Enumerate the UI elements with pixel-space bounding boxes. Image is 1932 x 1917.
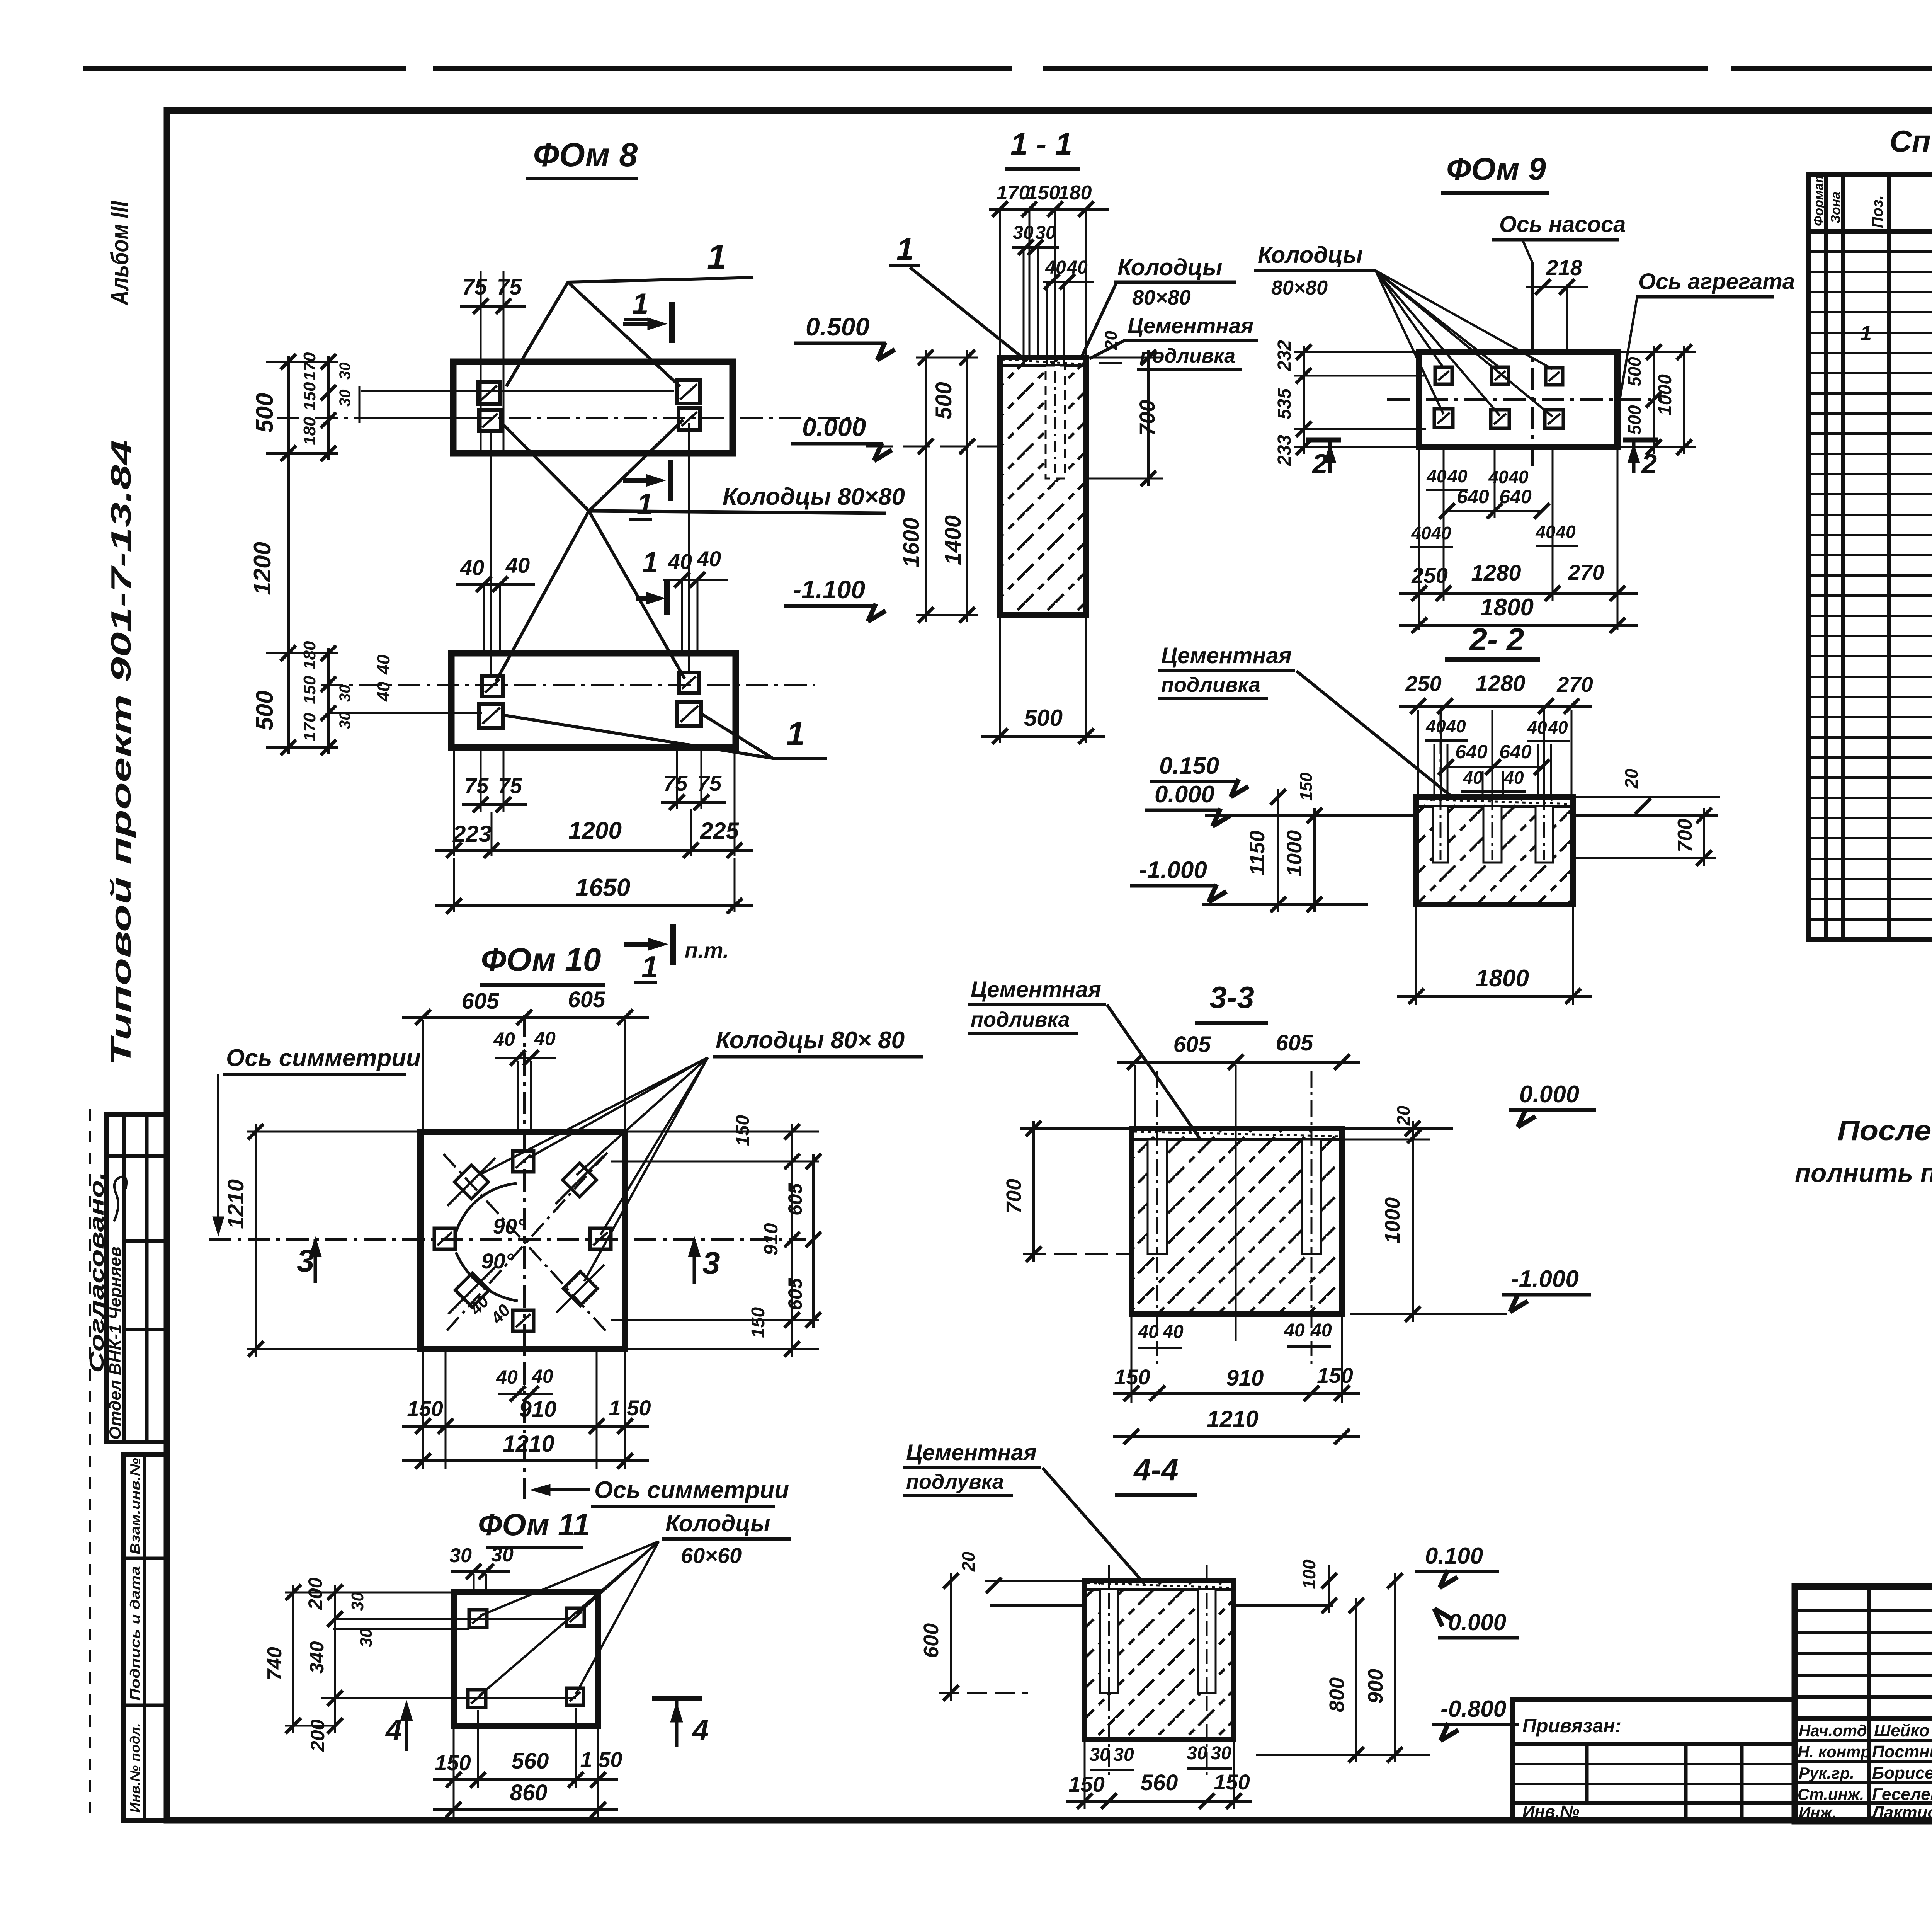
svg-text:1210: 1210 [223,1179,248,1229]
svg-text:40: 40 [496,1366,518,1388]
FOm 8 section mark 1 mid [668,460,673,501]
svg-text:1: 1 [632,288,648,320]
FOm 8 upper slab wells [478,382,500,404]
svg-text:200: 200 [307,1719,328,1752]
svg-text:подливка: подливка [1140,345,1235,367]
svg-text:Цементная: Цементная [1161,643,1292,668]
svg-text:150: 150 [1317,1363,1353,1388]
1-1 vertical dims 500 1400 1600 [925,350,927,622]
left stamp Soglasovano box [106,1115,168,1442]
svg-text:500: 500 [1624,405,1645,435]
svg-text:500: 500 [252,393,278,433]
svg-text:30: 30 [337,390,354,407]
svg-text:4: 4 [385,1714,402,1747]
svg-text:250: 250 [1405,671,1441,696]
svg-text:700: 700 [1674,819,1696,852]
FOm 9 right chains 500 500 1000 [1653,346,1655,454]
svg-text:1600: 1600 [899,518,924,567]
svg-text:900: 900 [1364,1669,1387,1704]
svg-text:20: 20 [1621,768,1641,789]
svg-text:1 - 1: 1 - 1 [1010,127,1072,161]
svg-text:150: 150 [300,676,319,704]
FOm 10 right ext lines [628,1131,819,1133]
svg-text:ФОм 9: ФОм 9 [1446,152,1546,187]
svg-text:1: 1 [641,950,658,984]
FOm 8 upper row leader line [367,390,674,392]
FOm 9 slab [1419,352,1617,447]
title block horizontals [1795,1609,1932,1612]
svg-text:Постников: Постников [1872,1742,1932,1761]
svg-text:150: 150 [1027,182,1060,204]
svg-text:Согласовано.: Согласовано. [86,1172,108,1373]
FOm 11 bottom dims 150 560 150 [477,1710,479,1788]
svg-text:150: 150 [407,1396,443,1421]
FOm 10 left dim 1210 [255,1124,257,1357]
svg-text:4-4: 4-4 [1133,1452,1179,1487]
svg-text:500: 500 [931,382,956,419]
svg-text:30: 30 [337,363,354,380]
spec table header row [1809,229,1932,234]
svg-text:40: 40 [505,553,530,577]
svg-text:4: 4 [692,1714,709,1747]
svg-text:40: 40 [460,555,484,580]
svg-text:640: 640 [1455,741,1488,763]
svg-text:2: 2 [1311,449,1328,480]
title block outer [1795,1587,1932,1821]
FOm 9 ext lines down [1418,449,1420,630]
svg-text:0.100: 0.100 [1425,1543,1483,1569]
FOm 8 inner left chain 170 150 180 (upper) [327,356,330,460]
svg-text:40: 40 [1463,768,1483,788]
FOm 9 kolodtsy leaders [1376,271,1444,368]
svg-text:Спецификация к ФОм 8÷ ФОм 11: Спецификация к ФОм 8÷ ФОм 11 [1889,124,1932,158]
FOm 11 dim 860 [453,1728,455,1817]
svg-text:1000: 1000 [1381,1197,1404,1244]
3-3 below: anchor axes [1156,1257,1158,1364]
svg-text:90°: 90° [493,1214,526,1238]
svg-text:700: 700 [1002,1179,1026,1214]
svg-text:-1.000: -1.000 [1511,1266,1579,1292]
svg-text:270: 270 [1568,560,1604,584]
FOm 11 left chains [334,1585,336,1733]
svg-text:200: 200 [304,1577,326,1610]
svg-text:подливка: подливка [971,1008,1070,1031]
svg-text:170: 170 [300,713,319,741]
svg-text:30: 30 [491,1544,514,1566]
FOm 8 lower slab wells [482,676,503,696]
FOm 9 axes [1387,398,1662,401]
svg-text:40: 40 [1045,257,1066,278]
svg-text:Формат: Формат [1811,171,1826,226]
svg-text:Подпись и дата: Подпись и дата [127,1566,143,1701]
4-4 dims 800 900 [1355,1598,1357,1762]
svg-text:150: 150 [748,1307,769,1338]
svg-text:1: 1 [786,715,805,752]
svg-text:Ось насоса: Ось насоса [1499,212,1626,237]
svg-text:40: 40 [1488,467,1509,487]
2-2 ground lines [1205,814,1416,817]
svg-text:1: 1 [637,488,653,521]
svg-text:Ось симметрии: Ось симметрии [226,1045,421,1071]
svg-text:1650: 1650 [575,873,630,901]
FOm 10 dim 1210 bottom [402,1459,649,1462]
svg-text:20: 20 [1102,331,1121,350]
svg-text:30: 30 [449,1544,472,1567]
svg-text:640: 640 [1499,741,1532,763]
svg-text:560: 560 [512,1748,549,1774]
2-2 podlivka layer [1416,805,1573,808]
svg-text:30: 30 [1187,1743,1207,1764]
svg-text:535: 535 [1274,388,1295,419]
FOm 11 slab [454,1592,598,1726]
3-3 well slots [1148,1139,1167,1254]
svg-text:3-3: 3-3 [1209,980,1254,1015]
1-1 dim 700 slot depth [1086,357,1163,359]
svg-text:После установки и выверки: После установки и выверки оборудования в… [1837,1115,1932,1146]
FOm 8 well leader fan X [501,422,589,511]
FOm 8 bolt axis lines [490,433,492,674]
svg-text:Инж.: Инж. [1799,1803,1837,1822]
page top rule [83,66,406,71]
FOm 8 pos leader 1 top [506,278,753,386]
4-4 dim 600 [950,1573,952,1701]
svg-text:605: 605 [1276,1030,1314,1056]
svg-text:150: 150 [1114,1365,1150,1389]
svg-text:полнить подливку цементно-пе: полнить подливку цементно-песчаным раств… [1795,1158,1932,1188]
svg-text:80×80: 80×80 [1132,286,1191,309]
1-1 foundation body [1000,358,1086,615]
svg-text:20: 20 [1393,1105,1413,1126]
svg-text:605: 605 [784,1277,806,1310]
svg-text:Типовой проект 901-7-13.84: Типовой проект 901-7-13.84 [106,440,137,1066]
svg-text:500: 500 [252,691,278,730]
svg-text:170: 170 [997,182,1030,204]
svg-text:800: 800 [1325,1677,1349,1712]
svg-text:40: 40 [1447,466,1468,486]
FOm 10 diagonal axes [444,1154,607,1333]
svg-text:40: 40 [493,1028,515,1050]
svg-text:Колодцы: Колодцы [1258,242,1363,268]
svg-text:605: 605 [1173,1032,1211,1057]
svg-text:1000: 1000 [1283,830,1306,877]
svg-text:Альбом III: Альбом III [106,201,134,306]
svg-text:Ст.инж.: Ст.инж. [1798,1785,1864,1803]
svg-text:п.т.: п.т. [685,938,729,962]
svg-text:40: 40 [1138,1322,1159,1342]
svg-text:180: 180 [300,417,319,445]
FOm 10 right chains [791,1124,793,1357]
svg-text:Поз.: Поз. [1869,195,1886,228]
4-4 ground lines [990,1604,1085,1607]
svg-text:270: 270 [1556,672,1593,696]
FOm 9 dim 250 1280 270 [1399,592,1638,595]
svg-text:-0.800: -0.800 [1440,1696,1506,1722]
spec table row lines [1809,250,1932,253]
3-3 dim 150 910 150 [1131,1317,1133,1403]
FOm 11 wells [469,1610,487,1628]
svg-text:218: 218 [1546,255,1582,280]
svg-text:640: 640 [1457,486,1489,507]
svg-text:1800: 1800 [1476,965,1529,992]
FOm 10 wells straight [513,1151,534,1172]
svg-text:100: 100 [1299,1559,1319,1589]
spec table columns [1824,174,1828,940]
2-2 anchor ext lines [1417,710,1419,797]
left lower stamp box [124,1455,168,1820]
svg-text:1: 1 [896,232,914,266]
svg-text:90°: 90° [481,1249,514,1273]
svg-text:30: 30 [1211,1743,1231,1764]
spec table outer [1809,174,1932,940]
svg-text:500: 500 [1024,705,1063,731]
FOm 9 left chain 232 535 233 [1303,346,1305,454]
FOm 9 wells [1435,367,1452,384]
FOm 9 section mark 2 left [1306,438,1341,443]
svg-text:1: 1 [707,238,726,276]
svg-text:0.000: 0.000 [1519,1081,1579,1108]
svg-text:0.500: 0.500 [806,312,869,341]
FOm 8 left dim chain [287,356,290,754]
svg-text:1280: 1280 [1471,560,1521,586]
svg-text:Инв.№ подл.: Инв.№ подл. [127,1723,143,1813]
svg-text:75: 75 [497,274,522,300]
svg-text:2: 2 [1641,449,1657,480]
svg-text:605: 605 [784,1183,806,1216]
svg-text:860: 860 [510,1780,548,1805]
svg-text:40: 40 [1311,1320,1332,1341]
svg-text:ФОм 10: ФОм 10 [481,941,601,978]
svg-text:150: 150 [1068,1772,1104,1796]
FOm 8 pos leader 1 bottom [502,715,827,758]
svg-text:180: 180 [300,641,319,669]
svg-text:Колодцы 80× 80: Колодцы 80× 80 [716,1027,905,1054]
svg-text:Цементная: Цементная [971,977,1101,1002]
svg-text:Взам.инв.№: Взам.инв.№ [127,1458,143,1554]
svg-text:40: 40 [668,549,692,574]
svg-text:Ось агрегата: Ось агрегата [1638,269,1795,294]
3-3 ground lines [1020,1127,1131,1130]
4-4 well slots [1100,1589,1118,1693]
svg-text:910: 910 [519,1397,557,1422]
2-2 well slots [1433,806,1448,863]
1-1 well slot dashed [1046,366,1065,478]
svg-text:40: 40 [1548,717,1568,737]
svg-text:910: 910 [1226,1365,1264,1391]
svg-text:Лактионов: Лактионов [1871,1803,1932,1822]
svg-text:40: 40 [531,1365,553,1387]
svg-text:Нач.отд: Нач.отд [1799,1721,1867,1740]
svg-text:Колодцы 80×80: Колодцы 80×80 [723,484,905,510]
svg-text:1280: 1280 [1475,671,1525,696]
svg-text:Борисенко: Борисенко [1872,1764,1932,1783]
svg-text:232: 232 [1274,340,1295,371]
svg-text:1: 1 [642,546,658,578]
FOm 8 lower left chain 180 150 170 [327,648,330,754]
svg-text:Цементная: Цементная [1128,313,1253,338]
svg-text:20: 20 [958,1551,978,1572]
4-4 dim 100 [1328,1565,1330,1613]
FOm 11 kolodtsy leaders [481,1541,659,1616]
svg-text:Ось симметрии: Ось симметрии [594,1477,789,1503]
svg-text:150: 150 [1214,1770,1250,1794]
svg-text:1000: 1000 [1655,374,1675,415]
FOm 8 section mark 1 lower [664,581,670,615]
dashed paper fold line [89,1109,91,1817]
FOm 8 upper slab [453,362,733,453]
svg-text:75: 75 [663,771,688,795]
svg-text:30: 30 [1035,223,1056,243]
FOm 9 section mark 2 right [1623,438,1658,443]
svg-text:233: 233 [1274,435,1295,466]
svg-text:Геселева: Геселева [1872,1785,1932,1804]
svg-text:40: 40 [373,654,393,675]
svg-text:1: 1 [1860,322,1872,345]
svg-text:340: 340 [306,1641,328,1674]
svg-text:30: 30 [357,1628,376,1647]
svg-text:1150: 1150 [1246,831,1269,875]
svg-text:40: 40 [1284,1320,1305,1341]
svg-text:500: 500 [1624,357,1645,386]
svg-text:225: 225 [700,818,740,844]
svg-text:0.000: 0.000 [802,413,866,441]
svg-text:75: 75 [464,773,489,798]
1-1 podlivka layer [1000,364,1086,367]
svg-text:600: 600 [920,1623,943,1658]
svg-text:80×80: 80×80 [1271,277,1328,299]
svg-text:30: 30 [1089,1745,1110,1765]
FOm 10 kolodtsy leaders [529,1057,708,1158]
2-2 right dim 700 [1573,857,1716,859]
4-4 anchor axes below [1108,1696,1110,1778]
svg-text:Н. контр: Н. контр [1798,1743,1871,1761]
2-2 dim 1800 below [1415,907,1417,1005]
svg-text:40: 40 [373,681,393,702]
svg-text:60×60: 60×60 [681,1543,742,1568]
svg-text:ФОм 11: ФОм 11 [478,1507,590,1542]
svg-text:Привязан:: Привязан: [1522,1715,1621,1737]
svg-text:250: 250 [1411,563,1447,587]
svg-text:40: 40 [534,1028,556,1049]
svg-text:ФОм 8: ФОм 8 [533,136,638,174]
FOm 8 lower slab [451,653,736,747]
svg-text:1210: 1210 [1207,1406,1258,1432]
svg-text:2- 2: 2- 2 [1469,622,1524,657]
FOm 10 wells diagonal [454,1165,488,1199]
3-3 foundation body [1131,1129,1342,1314]
svg-text:1210: 1210 [503,1431,554,1457]
svg-text:1400: 1400 [940,515,966,565]
svg-text:180: 180 [1058,182,1092,204]
svg-text:910: 910 [760,1223,782,1255]
svg-text:подлувка: подлувка [906,1470,1004,1493]
svg-text:40: 40 [1508,467,1529,487]
svg-text:75: 75 [498,773,522,798]
svg-text:40: 40 [1425,716,1446,736]
svg-text:30: 30 [337,685,354,702]
svg-text:40: 40 [1066,257,1088,278]
svg-text:560: 560 [1141,1770,1178,1795]
4-4 dim 150 560 150 [1084,1742,1086,1809]
svg-text:40: 40 [697,546,721,571]
svg-text:Отдел ВНК-1 Черняев: Отдел ВНК-1 Черняев [106,1246,124,1440]
svg-text:40: 40 [1162,1322,1184,1342]
signature squiggle [114,1177,126,1221]
svg-text:0.150: 0.150 [1159,752,1219,779]
svg-text:1200: 1200 [249,542,276,595]
svg-text:подливка: подливка [1161,673,1260,696]
2-2 foundation body [1416,797,1573,904]
svg-text:150: 150 [1297,772,1316,801]
svg-text:30: 30 [1113,1745,1134,1765]
svg-text:740: 740 [264,1647,286,1680]
4-4 podlivka layer [1085,1588,1234,1591]
svg-text:Зона: Зона [1828,192,1843,223]
3-3 dim 700 [1032,1121,1035,1262]
FOm 10 axes [209,1238,806,1241]
svg-text:75: 75 [462,274,487,300]
FOm 8 lower center axis [321,684,815,686]
3-3 dim 1210 [1113,1435,1360,1438]
svg-text:1 50: 1 50 [580,1747,622,1772]
svg-text:605: 605 [568,987,606,1012]
svg-text:150: 150 [300,382,319,410]
3-3 dim 1000 [1412,1121,1414,1322]
FOm 8 dim 223 1200 225 [453,750,455,856]
2-2 left chains 1150 1000 150 [1277,789,1279,912]
svg-text:Инв.№: Инв.№ [1522,1802,1579,1821]
FOm 8 section mark 1 p.t. bottom [670,924,676,965]
svg-text:3: 3 [702,1246,720,1281]
svg-text:40: 40 [1446,716,1466,736]
svg-text:Колодцы: Колодцы [665,1510,770,1536]
svg-text:Цементная: Цементная [906,1440,1037,1465]
svg-text:0.000: 0.000 [1448,1609,1506,1635]
svg-text:40: 40 [1411,523,1431,543]
svg-text:700: 700 [1135,400,1159,436]
title block verticals [1867,1587,1871,1821]
FOm 8 center axis [277,417,859,419]
svg-text:1800: 1800 [1480,594,1534,621]
FOm 8 dim 1650 [453,858,455,912]
svg-text:1 50: 1 50 [609,1396,651,1420]
svg-text:223: 223 [452,821,492,847]
FOm 10 slab [420,1132,625,1349]
svg-text:30: 30 [337,712,354,729]
svg-text:40: 40 [1555,522,1576,542]
svg-text:150: 150 [733,1115,753,1146]
FOm 10 angle arcs 90 [455,1183,517,1237]
FOm 11 section mark 4 right [652,1696,702,1701]
1-1 bottom dim 500 [999,615,1001,743]
svg-text:170: 170 [300,352,319,381]
svg-text:Рук.гр.: Рук.гр. [1799,1764,1854,1782]
4-4 foundation body [1085,1581,1234,1739]
svg-text:-1.000: -1.000 [1139,857,1207,884]
svg-text:40: 40 [1503,768,1524,788]
svg-text:Шейко: Шейко [1874,1721,1930,1740]
svg-text:1200: 1200 [568,817,622,844]
svg-text:-1.100: -1.100 [793,575,865,604]
FOm 8 section mark 1 top [669,302,675,343]
svg-text:Колодцы: Колодцы [1117,254,1223,280]
svg-text:640: 640 [1499,486,1532,507]
svg-text:30: 30 [1013,223,1034,243]
svg-text:40: 40 [1431,523,1451,543]
FOm 11 row axes [333,1618,568,1620]
3-3 podlivka layer [1131,1138,1342,1141]
privyazan table outer [1513,1699,1795,1821]
svg-text:605: 605 [462,989,500,1014]
